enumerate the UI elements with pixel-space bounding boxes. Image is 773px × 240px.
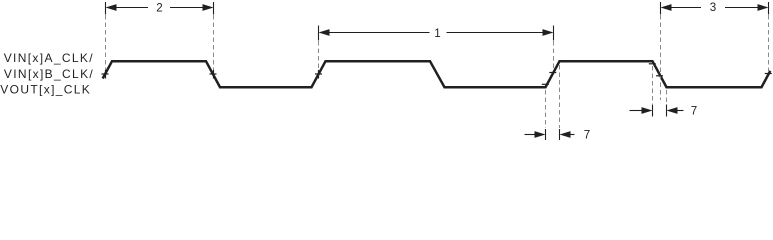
dashed extension line rise start (x=545.5) — [545, 90, 547, 128]
dimension 7 (rise time, bottom middle) — [525, 128, 591, 141]
svg-text:VIN[x]A_CLK/: VIN[x]A_CLK/ — [4, 51, 94, 65]
signal label VIN[x]A_CLK/ VIN[x]B_CLK/ VOUT[x]_CLK — [0, 51, 94, 96]
svg-text:7: 7 — [691, 104, 697, 117]
edge tick at final rise crossing (768.3,73.5) — [765, 73, 772, 75]
dimension 7 (fall time, right) — [630, 104, 698, 117]
edge tick at fall mid (660.5,76.5) — [656, 75, 663, 77]
dimension 1 (period) — [319, 26, 554, 41]
edge tick at rise start (546.5,84.5) — [542, 83, 549, 85]
dashed extension line at first falling-edge crossing (x=213) — [213, 15, 215, 70]
svg-text:3: 3 — [710, 1, 716, 14]
dashed extension line rise end (x=559.5) — [559, 65, 561, 128]
dashed extension line at first rising-edge crossing (x=105) — [105, 15, 107, 70]
svg-text:VOUT[x]_CLK: VOUT[x]_CLK — [0, 82, 91, 96]
crossing mark + at (213,74) — [210, 70, 217, 79]
svg-text:1: 1 — [434, 27, 440, 40]
crossing mark + at (318.5,74) — [315, 70, 322, 79]
dashed extension line at second rising-edge crossing (x=318.5) — [318, 41, 320, 70]
edge tick at rise mid (552.8,72.5) — [549, 72, 556, 74]
crossing mark + at (105,74) — [102, 70, 109, 79]
dashed extension line at third rising-edge crossing (x=553.5) — [553, 41, 555, 69]
edge tick at fall top (653,63) — [649, 63, 656, 65]
svg-text:2: 2 — [156, 1, 162, 14]
dashed extension line for dim 3 left (x=660.5) — [660, 15, 662, 100]
dimension 2 (first half period) — [106, 1, 214, 14]
svg-text:VIN[x]B_CLK/: VIN[x]B_CLK/ — [4, 67, 94, 81]
dimension 3 (second half period) — [661, 1, 769, 14]
dashed extension line fall end (x=666.5) — [666, 90, 668, 104]
dashed extension line for dim 3 right (x=768) — [768, 15, 770, 72]
dashed extension line fall start (x=652.5) — [652, 66, 654, 104]
svg-text:7: 7 — [584, 128, 590, 141]
clock waveform — [103, 61, 771, 87]
